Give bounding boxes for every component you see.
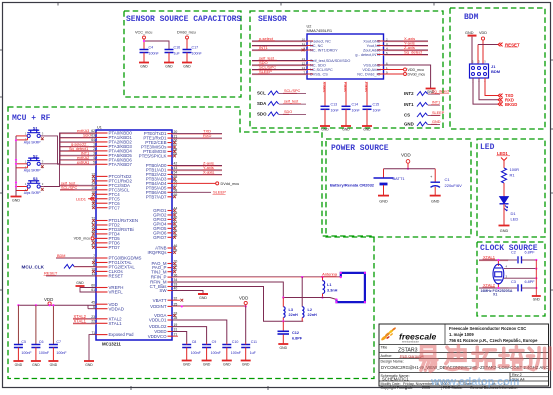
svg-text:GND: GND: [183, 363, 191, 367]
svg-text:C15: C15: [373, 102, 380, 106]
svg-text:Xout,GND: Xout,GND: [363, 39, 381, 43]
svg-text:Z-axis: Z-axis: [364, 82, 369, 93]
svg-text:VDD_mcu: VDD_mcu: [74, 237, 90, 241]
svg-text:GND: GND: [140, 65, 148, 69]
svg-text:DVSS, CS: DVSS, CS: [310, 72, 328, 76]
svg-text:SDA: SDA: [257, 101, 267, 106]
svg-text:VCC_mcu: VCC_mcu: [135, 31, 152, 35]
svg-text:GND: GND: [223, 363, 231, 367]
svg-text:SLEEP: SLEEP: [259, 69, 272, 74]
svg-text:GND: GND: [432, 120, 441, 124]
svg-text:Y-axis: Y-axis: [343, 82, 348, 93]
svg-text:100nF: 100nF: [191, 351, 202, 355]
svg-text:C5: C5: [21, 340, 26, 344]
svg-text:GND: GND: [342, 128, 350, 132]
svg-text:self_test: self_test: [61, 181, 76, 185]
svg-text:X-axis: X-axis: [203, 169, 214, 174]
svg-text:VDD_mcu: VDD_mcu: [408, 68, 424, 72]
svg-text:LED1: LED1: [76, 196, 87, 201]
svg-text:C1: C1: [445, 177, 451, 182]
svg-text:100nF: 100nF: [192, 52, 203, 56]
svg-text:GND: GND: [85, 363, 93, 367]
svg-text:GND: GND: [465, 31, 474, 35]
svg-text:SENSOR SOURCE CAPACITORS: SENSOR SOURCE CAPACITORS: [126, 15, 241, 24]
svg-text:VDD: VDD: [44, 297, 53, 302]
svg-text:C8: C8: [192, 340, 197, 344]
svg-text:VDDLO1: VDDLO1: [149, 318, 167, 323]
svg-text:PTD7: PTD7: [109, 245, 121, 250]
svg-text:SLEEP: SLEEP: [213, 190, 226, 195]
svg-text:semiconductor: semiconductor: [402, 339, 419, 343]
svg-text:SDO: SDO: [284, 110, 292, 114]
svg-text:VDD: VDD: [479, 31, 487, 35]
svg-text:XTAL2: XTAL2: [483, 282, 496, 287]
svg-text:C9: C9: [212, 340, 217, 344]
svg-text:GND: GND: [183, 65, 191, 69]
svg-text:DVdd_mcu: DVdd_mcu: [221, 182, 240, 186]
svg-text:100nF: 100nF: [211, 351, 222, 355]
svg-text:Sg_detect: Sg_detect: [432, 90, 450, 94]
svg-text:756 61 Roznov p.R., Czech Repu: 756 61 Roznov p.R., Czech Republic, Euro…: [449, 338, 538, 343]
svg-text:RESET: RESET: [505, 42, 520, 47]
svg-text:MCU_CLK: MCU_CLK: [22, 265, 45, 270]
svg-text:45: 45: [91, 300, 95, 304]
svg-text:INT2: INT2: [404, 91, 414, 96]
svg-text:Design Name:: Design Name:: [381, 360, 404, 364]
svg-text:100nF: 100nF: [39, 351, 50, 355]
svg-text:GND: GND: [431, 200, 440, 204]
svg-text:RESET: RESET: [109, 273, 124, 278]
svg-text:C4: C4: [149, 46, 154, 50]
svg-text:GND: GND: [165, 65, 173, 69]
svg-text:C17: C17: [192, 46, 199, 50]
svg-text:XTAL1: XTAL1: [483, 254, 496, 259]
svg-text:Author:: Author:: [381, 354, 393, 358]
svg-text:VDD: VDD: [239, 296, 248, 301]
svg-text:R1: R1: [510, 173, 516, 178]
svg-text:VDDAD: VDDAD: [109, 306, 124, 311]
svg-text:VDD,AVdd: VDD,AVdd: [362, 68, 380, 72]
svg-text:GND: GND: [321, 128, 329, 132]
svg-text:L3: L3: [289, 308, 293, 312]
svg-text:SW: SW: [159, 288, 167, 293]
svg-text:C2: C2: [511, 251, 516, 255]
svg-text:VREFL: VREFL: [109, 290, 124, 295]
svg-text:BDM: BDM: [491, 69, 501, 74]
svg-text:PTA7/KBD7: PTA7/KBD7: [109, 162, 133, 167]
svg-text:BATT1: BATT1: [393, 176, 406, 181]
svg-text:10nF: 10nF: [352, 108, 361, 112]
svg-text:Freescale Semiconductor Roznov: Freescale Semiconductor Roznov CSC: [449, 326, 526, 331]
svg-text:SDO: SDO: [83, 133, 91, 137]
svg-text:MCU + RF: MCU + RF: [12, 114, 51, 123]
svg-text:Sg_detect1: Sg_detect1: [69, 147, 88, 151]
svg-text:Antenna: Antenna: [322, 272, 338, 277]
svg-text:Battery/Renata CR2032: Battery/Renata CR2032: [330, 182, 375, 187]
svg-text:D1: D1: [511, 211, 517, 216]
svg-text:PTE5/SPICLK: PTE5/SPICLK: [139, 154, 167, 159]
svg-text:2005: 2005: [422, 386, 430, 390]
svg-text:NC,SCL/SPC: NC,SCL/SPC: [310, 68, 333, 72]
svg-text:C3: C3: [511, 280, 516, 284]
svg-text:BDM: BDM: [464, 13, 479, 22]
svg-text:Copyright Freescale: Copyright Freescale: [381, 386, 413, 390]
svg-text:VSS,GND: VSS,GND: [363, 63, 380, 67]
svg-text:100nF: 100nF: [231, 351, 242, 355]
svg-text:GND: GND: [199, 296, 207, 300]
svg-text:INT1: INT1: [432, 101, 440, 105]
svg-text:C11: C11: [251, 340, 257, 344]
svg-text:IRQ#RQs: IRQ#RQs: [147, 250, 167, 255]
svg-text:10nF: 10nF: [373, 108, 382, 112]
svg-text:SDO: SDO: [257, 112, 267, 117]
svg-text:Sg_detect: Sg_detect: [404, 50, 423, 55]
svg-text:GND: GND: [280, 346, 288, 350]
svg-text:g - detect,INT2: g - detect,INT2: [355, 53, 380, 57]
svg-text:INT1: INT1: [259, 45, 268, 50]
svg-text:Exposed Pad: Exposed Pad: [109, 332, 135, 337]
svg-text:p-select, NC: p-select, NC: [310, 39, 331, 43]
svg-text:Zout,Add0: Zout,Add0: [363, 48, 381, 52]
svg-text:Title: Title: [381, 346, 388, 350]
svg-text:PTC7: PTC7: [109, 205, 121, 210]
svg-text:LED: LED: [480, 143, 495, 152]
svg-text:1uF: 1uF: [174, 52, 181, 56]
svg-text:XTAL1: XTAL1: [74, 319, 87, 324]
svg-text:C10: C10: [232, 340, 239, 344]
svg-text:evtKA1: evtKA1: [77, 160, 89, 164]
svg-text:X-axis: X-axis: [322, 82, 327, 93]
svg-text:6.8PF: 6.8PF: [525, 251, 536, 255]
svg-text:GPIO7: GPIO7: [153, 235, 167, 240]
svg-text:1uF: 1uF: [250, 351, 257, 355]
svg-text:NC, NC: NC, NC: [310, 44, 323, 48]
svg-text:C6: C6: [39, 340, 44, 344]
svg-text:Alps SKRP: Alps SKRP: [24, 140, 42, 144]
svg-text:22nH: 22nH: [308, 313, 318, 317]
svg-text:C12: C12: [292, 331, 299, 335]
svg-text:6.8PF: 6.8PF: [292, 337, 303, 341]
svg-text:X1: X1: [493, 293, 497, 297]
svg-text:VBATT: VBATT: [153, 298, 167, 303]
svg-text:21: 21: [174, 332, 178, 336]
svg-text:Alps SKRP: Alps SKRP: [24, 191, 42, 195]
svg-text:L2: L2: [308, 308, 312, 312]
svg-text:3.3nH: 3.3nH: [327, 289, 338, 293]
svg-text:VDDINT: VDDINT: [150, 304, 167, 309]
svg-text:U1: U1: [97, 126, 102, 130]
svg-text:SCL: SCL: [257, 91, 266, 96]
svg-text:100R: 100R: [510, 167, 520, 172]
svg-text:C16: C16: [174, 46, 181, 50]
svg-text:Self_test,SDA/SDI/SDO: Self_test,SDA/SDI/SDO: [310, 59, 350, 63]
svg-text:MC13211: MC13211: [102, 342, 121, 347]
svg-text:C14: C14: [352, 102, 359, 106]
svg-text:RESET: RESET: [44, 271, 58, 276]
svg-text:evtKA2: evtKA2: [77, 156, 89, 160]
svg-text:BDM: BDM: [57, 254, 65, 258]
svg-text:TINJ_M: TINJ_M: [151, 269, 167, 274]
svg-text:LED: LED: [511, 217, 519, 222]
svg-text:POWER SOURCE: POWER SOURCE: [331, 144, 389, 153]
svg-text:GND: GND: [15, 363, 23, 367]
svg-text:NC, SDO: NC, SDO: [310, 63, 326, 67]
svg-text:INT1: INT1: [81, 151, 89, 155]
svg-text:DVdd_mcu: DVdd_mcu: [177, 31, 196, 35]
svg-text:22nH: 22nH: [289, 313, 299, 317]
svg-text:10nF: 10nF: [331, 108, 340, 112]
svg-text:RXD: RXD: [203, 133, 212, 138]
svg-text:self_test: self_test: [284, 100, 299, 104]
svg-text:1. maje 1009: 1. maje 1009: [449, 332, 474, 337]
svg-text:Alps SKRP: Alps SKRP: [24, 168, 42, 172]
svg-text:GND: GND: [76, 281, 84, 285]
svg-text:NC, DVdd_IO: NC, DVdd_IO: [357, 72, 380, 76]
svg-text:GND: GND: [363, 128, 371, 132]
svg-text:GND: GND: [533, 298, 541, 302]
svg-text:SCL/SPC: SCL/SPC: [284, 89, 301, 93]
svg-text:6.8PF: 6.8PF: [525, 280, 536, 284]
svg-text:g-select2: g-select2: [71, 142, 86, 146]
svg-text:GND: GND: [12, 199, 20, 203]
svg-text:XTAL1: XTAL1: [109, 321, 123, 326]
svg-text:p-select: p-select: [259, 36, 274, 41]
svg-text:CS: CS: [404, 113, 410, 118]
svg-text:VDDVCO: VDDVCO: [148, 334, 167, 339]
svg-text:C7: C7: [56, 340, 61, 344]
svg-text:evtKA3: evtKA3: [77, 129, 89, 133]
svg-text:SENSOR: SENSOR: [258, 15, 287, 24]
svg-text:Yout,NC: Yout,NC: [366, 44, 380, 48]
svg-text:220uF/6V: 220uF/6V: [445, 183, 463, 188]
svg-text:GND: GND: [500, 229, 509, 233]
svg-text:LED1: LED1: [497, 151, 508, 156]
svg-text:100nF: 100nF: [21, 351, 32, 355]
svg-text:GND: GND: [404, 122, 414, 127]
svg-text:GND: GND: [203, 363, 211, 367]
svg-text:GND: GND: [242, 363, 250, 367]
svg-text:SCL/SPC: SCL/SPC: [61, 186, 78, 190]
svg-text:100nF: 100nF: [56, 351, 67, 355]
svg-text:GND: GND: [50, 363, 58, 367]
svg-text:INT1: INT1: [404, 102, 414, 107]
svg-text:SLEEP: SLEEP: [432, 111, 445, 115]
svg-text:BKGD: BKGD: [505, 102, 517, 107]
svg-text:100nF: 100nF: [149, 52, 160, 56]
svg-text:DVdd_mcu: DVdd_mcu: [408, 73, 426, 77]
svg-text:PTB7/AD7: PTB7/AD7: [146, 194, 167, 199]
svg-text:NC, INT1/DRDY: NC, INT1/DRDY: [310, 48, 338, 52]
svg-text:C13: C13: [331, 102, 338, 106]
svg-text:L1: L1: [327, 283, 331, 287]
svg-text:VDD: VDD: [401, 153, 411, 158]
svg-text:GND: GND: [379, 200, 388, 204]
svg-text:GND: GND: [32, 363, 40, 367]
svg-text:www.edatop.com: www.edatop.com: [430, 376, 519, 388]
svg-text:MMA7455LR1: MMA7455LR1: [307, 28, 333, 33]
